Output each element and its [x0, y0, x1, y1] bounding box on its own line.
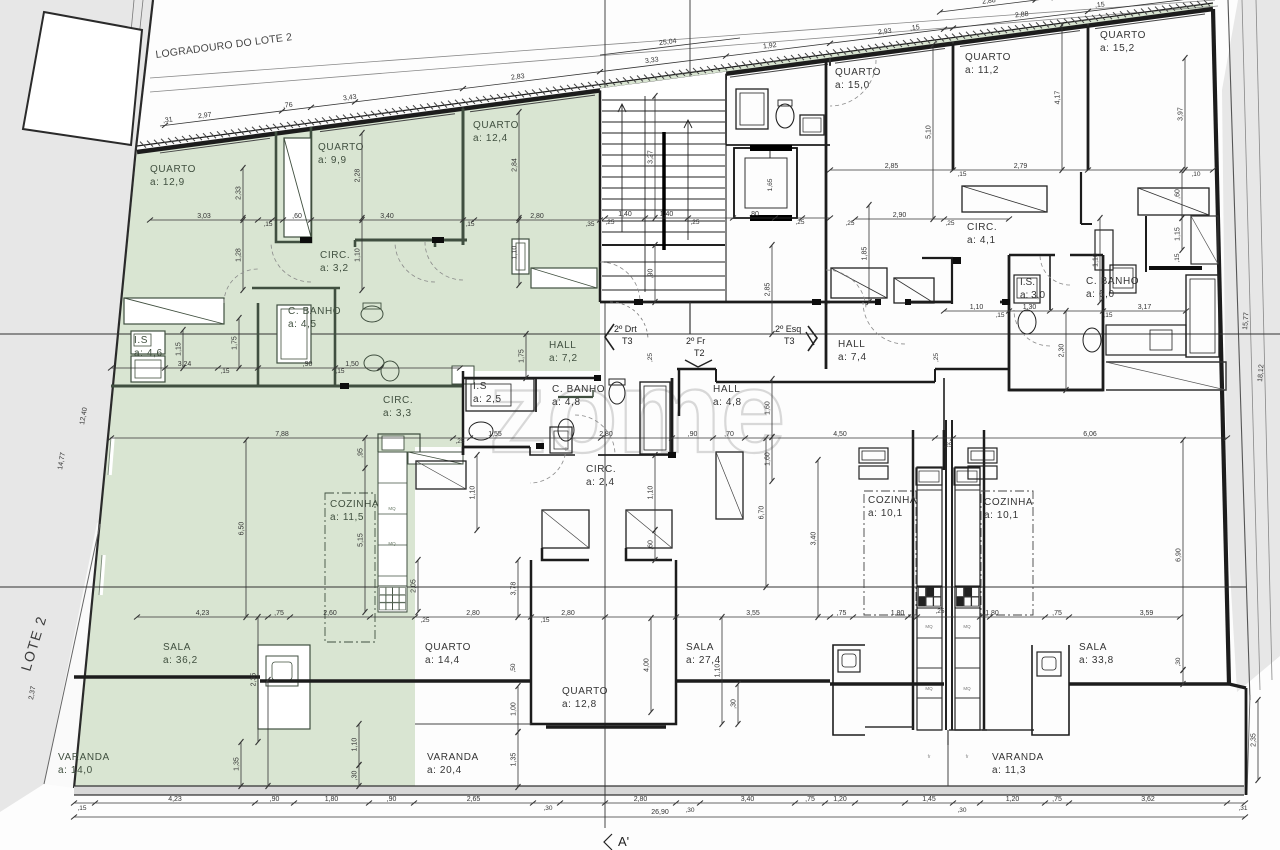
svg-text:1,10: 1,10 — [512, 246, 519, 260]
stove left — [917, 586, 942, 608]
svg-text:1,00: 1,00 — [511, 702, 518, 716]
svg-text:a: 15,0: a: 15,0 — [835, 80, 870, 91]
cluster bottom walls — [463, 446, 530, 449]
svg-text:a: 20,4: a: 20,4 — [427, 765, 462, 776]
svg-text:,90: ,90 — [387, 796, 397, 803]
is 4,6 fixtures — [131, 331, 165, 354]
svg-text:a: 12,9: a: 12,9 — [150, 177, 185, 188]
svg-text:a: 7,2: a: 7,2 — [549, 353, 578, 364]
svg-text:,30: ,30 — [352, 771, 359, 781]
svg-text:CIRC.: CIRC. — [383, 395, 413, 406]
svg-text:,90: ,90 — [648, 269, 655, 279]
sala 27,4 sink block — [833, 645, 865, 735]
neighbor building — [23, 12, 142, 145]
circ 2,4 walls — [530, 447, 575, 455]
svg-text:1,15: 1,15 — [1175, 227, 1182, 241]
svg-text:a: 3,0: a: 3,0 — [1020, 290, 1045, 301]
svg-text:2,60: 2,60 — [323, 610, 337, 617]
svg-text:1,10: 1,10 — [1093, 253, 1100, 267]
svg-text:A': A' — [618, 834, 629, 849]
svg-text:2,35: 2,35 — [1251, 733, 1258, 747]
window lines below top wall — [160, 138, 270, 153]
svg-text:1,60: 1,60 — [765, 401, 772, 415]
svg-text:CIRC.: CIRC. — [586, 464, 616, 475]
svg-text:QUARTO: QUARTO — [562, 686, 608, 697]
svg-text:6,50: 6,50 — [239, 522, 246, 536]
svg-text:2º Esq: 2º Esq — [775, 324, 801, 334]
wc fixtures — [736, 89, 768, 129]
svg-text:1,85: 1,85 — [862, 247, 869, 261]
svg-text:CIRC.: CIRC. — [320, 250, 350, 261]
svg-text:,35: ,35 — [585, 221, 594, 228]
svg-text:a: 36,2: a: 36,2 — [163, 655, 198, 666]
wall x830 quarto15,0 — [825, 60, 828, 305]
door mark 2fr — [685, 360, 698, 367]
svg-text:2,80: 2,80 — [466, 610, 480, 617]
svg-text:3,17: 3,17 — [1138, 304, 1152, 311]
svg-text:1,65: 1,65 — [767, 178, 774, 191]
svg-text:2,05: 2,05 — [411, 579, 418, 593]
svg-text:3,27: 3,27 — [648, 150, 655, 164]
svg-text:CIRC.: CIRC. — [967, 222, 997, 233]
svg-text:,90: ,90 — [688, 431, 698, 438]
svg-text:a: 3,3: a: 3,3 — [383, 408, 412, 419]
wall right apartments mid y302 — [1000, 301, 1009, 304]
svg-text:T2: T2 — [694, 348, 705, 358]
svg-text:,60: ,60 — [1175, 189, 1182, 199]
svg-text:2,65: 2,65 — [467, 796, 481, 803]
vertical dims lower — [517, 686, 519, 732]
svg-text:1,75: 1,75 — [232, 336, 239, 350]
top exterior wall — [137, 9, 1213, 152]
svg-text:VARANDA: VARANDA — [427, 752, 479, 763]
varanda 11,3 bottom open — [947, 745, 949, 786]
right boundary lines — [1228, 0, 1250, 700]
svg-text:HALL: HALL — [713, 384, 740, 395]
dim row y218 stairs — [605, 217, 830, 219]
stair stringer — [644, 96, 646, 292]
windows row y170 dim — [830, 169, 1213, 171]
svg-text:C. BANHO: C. BANHO — [1086, 276, 1139, 287]
kitchen upper cabinet row — [408, 452, 463, 464]
svg-text:,76: ,76 — [283, 102, 294, 110]
svg-text:SALA: SALA — [686, 642, 714, 653]
svg-text:,25: ,25 — [455, 438, 464, 445]
svg-text:,30: ,30 — [957, 807, 966, 814]
stove — [378, 586, 407, 612]
svg-text:a: 10,1: a: 10,1 — [984, 510, 1019, 521]
svg-text:1,15: 1,15 — [176, 342, 183, 356]
green strip along top wall — [600, 3, 1213, 92]
svg-text:I.S: I.S — [473, 381, 487, 392]
svg-text:MQ: MQ — [925, 686, 933, 691]
quarto 14,4 wardrobe — [416, 461, 466, 489]
svg-text:a: 3,2: a: 3,2 — [320, 263, 349, 274]
right exterior wall — [1213, 9, 1229, 684]
svg-text:C. BANHO: C. BANHO — [288, 306, 341, 317]
svg-text:1,28: 1,28 — [236, 248, 243, 262]
wall between is and cbanho — [535, 378, 537, 412]
svg-text:4,23: 4,23 — [168, 796, 182, 803]
svg-text:1,75: 1,75 — [519, 349, 526, 363]
svg-text:a: 4,1: a: 4,1 — [967, 235, 996, 246]
svg-text:5,15: 5,15 — [358, 533, 365, 547]
svg-text:SALA: SALA — [163, 642, 191, 653]
svg-text:T3: T3 — [622, 336, 633, 346]
extra door arcs — [1040, 255, 1070, 285]
svg-text:a: 11,3: a: 11,3 — [992, 765, 1026, 776]
wall x948 party — [943, 378, 945, 430]
svg-text:2,80: 2,80 — [634, 796, 648, 803]
svg-text:,10: ,10 — [1191, 171, 1200, 178]
stair landing lines — [602, 244, 725, 246]
svg-text:,75: ,75 — [1052, 796, 1062, 803]
wall below right bath — [1009, 389, 1103, 392]
dim row y617 — [137, 616, 1180, 618]
dim row y220 left — [150, 219, 600, 221]
wall x672-676 sala27 — [675, 560, 678, 681]
svg-text:COZINHA: COZINHA — [868, 495, 917, 506]
svg-text:6,90: 6,90 — [1176, 548, 1183, 562]
svg-text:a: 2,5: a: 2,5 — [473, 394, 502, 405]
svg-text:VARANDA: VARANDA — [58, 752, 110, 763]
svg-text:4,17: 4,17 — [1055, 91, 1062, 105]
svg-text:,15: ,15 — [1095, 1, 1106, 9]
cbanho shower — [550, 427, 572, 453]
gray lot strip left — [0, 0, 153, 812]
bottom dim row 1 — [74, 802, 1245, 804]
window right wall niche — [1095, 230, 1113, 270]
svg-text:a: 12,4: a: 12,4 — [473, 133, 508, 144]
svg-text:1,30: 1,30 — [1023, 304, 1037, 311]
svg-text:MQ: MQ — [925, 624, 933, 629]
svg-text:1,10: 1,10 — [648, 486, 655, 500]
dashdot cozinha left — [864, 491, 916, 615]
sala cabinet — [258, 645, 310, 729]
is 3,0 fixtures — [1014, 275, 1040, 303]
svg-text:3,97: 3,97 — [1178, 107, 1185, 121]
dim row y368 green bath — [111, 367, 460, 369]
svg-text:,25: ,25 — [933, 353, 940, 362]
svg-text:,15: ,15 — [1174, 253, 1181, 262]
svg-text:a: 14,0: a: 14,0 — [58, 765, 93, 776]
svg-text:2,85: 2,85 — [885, 163, 899, 170]
svg-text:,15: ,15 — [1103, 312, 1112, 319]
svg-text:6,06: 6,06 — [1083, 431, 1097, 438]
wardrobe Q12,4 — [531, 268, 597, 288]
svg-text:1,40: 1,40 — [660, 211, 674, 218]
balcony quarto 14,4 — [415, 679, 531, 682]
svg-text:MQ: MQ — [963, 624, 971, 629]
svg-text:I.S.: I.S. — [1020, 277, 1035, 288]
svg-text:2,30: 2,30 — [1059, 344, 1066, 358]
svg-text:,30: ,30 — [685, 807, 694, 814]
svg-text:,15: ,15 — [335, 368, 344, 375]
svg-text:3,78: 3,78 — [511, 582, 518, 596]
svg-text:3,55: 3,55 — [746, 610, 760, 617]
wall x531 — [530, 560, 533, 681]
stair arrows — [621, 104, 623, 232]
window in Q12,4 — [512, 239, 529, 274]
svg-text:,50: ,50 — [510, 663, 517, 672]
wall y=386 left apartment — [111, 385, 463, 388]
svg-text:1,40: 1,40 — [618, 211, 632, 218]
svg-text:a: 11,2: a: 11,2 — [965, 65, 999, 76]
svg-text:zome: zome — [489, 347, 786, 477]
svg-text:QUARTO: QUARTO — [835, 67, 881, 78]
svg-text:7,88: 7,88 — [275, 431, 289, 438]
svg-text:,30: ,30 — [731, 699, 738, 709]
stair handrail — [662, 132, 666, 250]
svg-text:,15: ,15 — [465, 221, 474, 228]
svg-text:QUARTO: QUARTO — [473, 120, 519, 131]
dim row y219 right — [855, 218, 1009, 220]
svg-text:3,40: 3,40 — [811, 532, 818, 546]
section lines — [0, 333, 1280, 335]
svg-text:,25: ,25 — [845, 220, 854, 227]
top slanted dim chain — [160, 0, 1213, 126]
kitchens lower walls — [917, 729, 942, 731]
varanda right wall — [1229, 684, 1246, 688]
svg-text:a: 10,1: a: 10,1 — [868, 508, 903, 519]
svg-text:a: 4,6: a: 4,6 — [134, 348, 163, 359]
svg-text:1,45: 1,45 — [922, 796, 936, 803]
svg-text:2º Drt: 2º Drt — [614, 324, 637, 334]
svg-text:,15: ,15 — [540, 617, 549, 624]
svg-text:,95: ,95 — [358, 448, 365, 458]
svg-text:3,03: 3,03 — [197, 213, 211, 220]
svg-text:a: 2,4: a: 2,4 — [586, 477, 615, 488]
svg-text:6,70: 6,70 — [759, 506, 766, 520]
svg-text:1,20: 1,20 — [1006, 796, 1020, 803]
svg-text:,75: ,75 — [274, 610, 284, 617]
svg-text:a: 4,8: a: 4,8 — [713, 397, 742, 408]
wall+closet between Q12,9 and Q9,9 — [276, 127, 311, 242]
svg-text:QUARTO: QUARTO — [150, 164, 196, 175]
middle bath cluster right — [1009, 255, 1103, 390]
balcony edge left apt — [74, 675, 260, 678]
varanda 20,4 low walls — [415, 723, 531, 725]
right window wardrobe y360 — [1106, 362, 1226, 390]
cbanho 6,0 fixtures — [1083, 328, 1101, 352]
cozinha left column — [917, 467, 942, 730]
svg-text:C. BANHO: C. BANHO — [552, 384, 605, 395]
balcony sala 27,4 — [676, 679, 830, 682]
svg-text:HALL: HALL — [549, 340, 576, 351]
svg-text:a: 15,2: a: 15,2 — [1100, 43, 1135, 54]
svg-text:4,00: 4,00 — [644, 658, 651, 672]
svg-text:SALA: SALA — [1079, 642, 1107, 653]
svg-text:,70: ,70 — [724, 431, 734, 438]
gray lot strip right — [1222, 0, 1280, 692]
top cabinets kitchens — [859, 448, 888, 463]
banho tub — [277, 305, 311, 363]
svg-text:2,80: 2,80 — [561, 610, 575, 617]
wardrobes below circ2,4 — [542, 510, 589, 548]
svg-text:1,80: 1,80 — [985, 610, 999, 617]
right tub — [1186, 275, 1219, 357]
svg-text:VARANDA: VARANDA — [992, 752, 1044, 763]
stair mid vertical 3,27 dim — [654, 96, 656, 218]
wardrobe right2 — [1138, 188, 1209, 215]
svg-text:,75: ,75 — [837, 610, 847, 617]
svg-text:a: 14,4: a: 14,4 — [425, 655, 460, 666]
svg-text:2,28: 2,28 — [355, 169, 362, 183]
svg-text:1,20: 1,20 — [833, 796, 847, 803]
svg-text:,15: ,15 — [263, 221, 272, 228]
lot boundary left — [74, 148, 136, 788]
cbanho toilet — [558, 419, 574, 441]
svg-text:2,33: 2,33 — [236, 186, 243, 200]
stair treads — [602, 99, 725, 101]
svg-text:1,10: 1,10 — [970, 304, 984, 311]
wall between Q9,9 and Q12,4 — [462, 109, 465, 245]
svg-text:1,35: 1,35 — [511, 753, 518, 767]
upper right chain — [940, 0, 1213, 12]
party wall kitchens — [945, 420, 947, 730]
is 2,5 — [466, 379, 534, 411]
dim row y311 right baths — [944, 310, 1186, 312]
svg-text:2,80: 2,80 — [530, 213, 544, 220]
bottom deck edge — [74, 786, 1244, 795]
svg-text:,25: ,25 — [795, 219, 804, 226]
cozinha counters — [378, 452, 407, 612]
svg-text:3,40: 3,40 — [380, 213, 394, 220]
svg-text:,25: ,25 — [420, 617, 429, 624]
svg-text:I.S: I.S — [134, 335, 148, 346]
svg-text:a: 4,8: a: 4,8 — [552, 397, 581, 408]
circ 4,1 walls — [826, 301, 875, 304]
elevator door jambs — [750, 145, 792, 151]
cozinha right column — [955, 467, 980, 730]
svg-text:a: 11,5: a: 11,5 — [330, 512, 364, 523]
svg-text:5,10: 5,10 — [926, 125, 933, 139]
stove right — [955, 586, 980, 608]
wall below Q9,9/Q12,4 y=240 — [355, 239, 467, 242]
cozinha dashdot — [325, 493, 375, 642]
kitchen outer walls — [912, 430, 915, 730]
stair walls — [599, 90, 602, 302]
svg-text:,25: ,25 — [690, 219, 699, 226]
balcony sala 33,8 — [1069, 682, 1229, 685]
svg-text:,15: ,15 — [910, 24, 921, 32]
svg-text:,75: ,75 — [805, 796, 815, 803]
svg-text:,31: ,31 — [1238, 805, 1247, 812]
svg-text:,60: ,60 — [292, 213, 302, 220]
right bath lower counter — [1106, 325, 1186, 355]
svg-text:,15: ,15 — [220, 368, 229, 375]
svg-text:MQ: MQ — [388, 506, 396, 511]
svg-text:a: 4,5: a: 4,5 — [288, 319, 317, 330]
svg-text:1,35: 1,35 — [234, 757, 241, 771]
svg-text:1,80: 1,80 — [891, 610, 905, 617]
hall7,4 walls — [825, 302, 828, 369]
svg-text:,15: ,15 — [995, 312, 1004, 319]
svg-text:2,35: 2,35 — [251, 673, 258, 687]
svg-text:,30: ,30 — [1175, 657, 1182, 666]
svg-text:,75: ,75 — [1052, 610, 1062, 617]
svg-text:1,50: 1,50 — [345, 361, 359, 368]
svg-text:26,90: 26,90 — [651, 809, 669, 816]
svg-text:a: 12,8: a: 12,8 — [562, 699, 597, 710]
elevator shaft — [734, 148, 797, 218]
svg-text:HALL: HALL — [838, 339, 865, 350]
svg-text:4,50: 4,50 — [833, 431, 847, 438]
svg-text:MQ: MQ — [388, 541, 396, 546]
wc top walls — [726, 144, 830, 146]
stair block bg — [600, 72, 726, 302]
svg-text:,25: ,25 — [935, 608, 944, 615]
svg-text:4,23: 4,23 — [196, 610, 210, 617]
hall 7,2 niche wall — [558, 396, 593, 398]
svg-text:2,90: 2,90 — [893, 212, 907, 219]
svg-text:1,10: 1,10 — [352, 738, 359, 752]
cluster walls — [462, 371, 465, 447]
wardrobe right1 — [962, 186, 1047, 212]
varanda 11,3 left wall — [947, 730, 949, 745]
toilets green bath — [361, 306, 383, 322]
main dim chain y438 — [111, 437, 1227, 439]
svg-text:1,10: 1,10 — [470, 486, 477, 500]
svg-text:3,59: 3,59 — [1140, 610, 1154, 617]
wall x1088 — [1087, 26, 1090, 170]
svg-text:,25: ,25 — [945, 220, 954, 227]
svg-text:1,55: 1,55 — [488, 431, 502, 438]
svg-text:COZINHA: COZINHA — [330, 499, 379, 510]
svg-text:2,84: 2,84 — [512, 158, 519, 172]
vertical dims top area — [242, 168, 244, 218]
circ41 sw wall — [922, 258, 952, 304]
door arcs — [271, 242, 311, 282]
svg-text:,80: ,80 — [749, 211, 759, 218]
door jambs — [634, 299, 643, 305]
sala 27,4 left wall — [943, 430, 946, 470]
svg-text:,15: ,15 — [957, 171, 966, 178]
svg-text:1,60: 1,60 — [765, 452, 772, 466]
wc toilet — [776, 104, 794, 128]
svg-text:3,40: 3,40 — [741, 796, 755, 803]
small sink near 3,24 — [381, 361, 399, 381]
svg-text:,60: ,60 — [648, 540, 655, 550]
wc shelf — [800, 115, 824, 135]
svg-text:,90: ,90 — [270, 796, 280, 803]
green T4 apartment area — [74, 88, 600, 788]
svg-text:a: 33,8: a: 33,8 — [1079, 655, 1114, 666]
svg-text:,25: ,25 — [605, 219, 614, 226]
svg-text:QUARTO: QUARTO — [425, 642, 471, 653]
svg-text:QUARTO: QUARTO — [1100, 30, 1146, 41]
svg-text:QUARTO: QUARTO — [965, 52, 1011, 63]
svg-text:1,80: 1,80 — [325, 796, 339, 803]
svg-text:,25: ,25 — [943, 442, 952, 449]
svg-text:2,85: 2,85 — [765, 283, 772, 297]
svg-text:3,62: 3,62 — [1141, 796, 1155, 803]
door arcs stair hall — [610, 302, 648, 340]
dashdot cozinha right — [981, 491, 1033, 615]
svg-text:MQ: MQ — [963, 686, 971, 691]
bottom dim row 2 — [74, 816, 1245, 818]
svg-text:,15: ,15 — [77, 805, 86, 812]
svg-text:,31: ,31 — [163, 116, 174, 124]
svg-text:2º Fr: 2º Fr — [686, 336, 705, 346]
svg-text:COZINHA: COZINHA — [984, 497, 1033, 508]
logradouro boundary lines — [150, 0, 1215, 78]
hall 4,8 wardrobe — [716, 452, 743, 519]
quarto15,0 wardrobe — [831, 268, 887, 298]
vertical dims mid — [245, 440, 247, 617]
sala 33,8 sink block — [1032, 645, 1069, 735]
svg-text:1,10: 1,10 — [355, 248, 362, 262]
